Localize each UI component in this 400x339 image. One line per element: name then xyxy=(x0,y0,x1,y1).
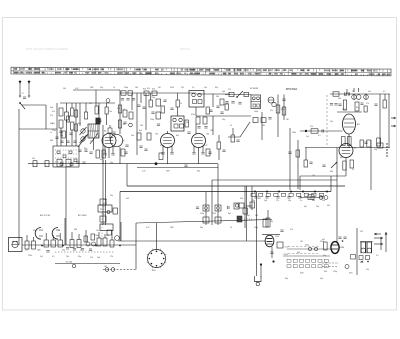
parts left of EZ80 xyxy=(324,242,328,250)
svg-text:120p: 120p xyxy=(200,213,204,215)
capacitor Cy1 xyxy=(78,150,81,152)
wire xyxy=(28,163,100,165)
capacitor Cz4 xyxy=(163,100,166,102)
svg-text:0,47: 0,47 xyxy=(142,171,146,173)
heater cap b xyxy=(360,103,363,105)
resistor R51 xyxy=(113,208,118,214)
svg-text:0,1: 0,1 xyxy=(52,256,55,258)
capacitor C27 xyxy=(322,165,325,167)
resistor R46 xyxy=(243,208,248,214)
resistor R43 xyxy=(203,217,209,223)
parts small xyxy=(239,203,244,208)
capacitor Cx4 xyxy=(309,162,312,164)
svg-text:3k3: 3k3 xyxy=(117,108,120,110)
svg-text:50µ: 50µ xyxy=(323,255,326,257)
node dot xyxy=(155,162,158,165)
wire xyxy=(244,186,246,228)
wire xyxy=(167,131,169,134)
strip stub 8 xyxy=(104,234,106,238)
wire xyxy=(196,93,230,95)
resistor R41 xyxy=(203,205,209,211)
resistor R6b xyxy=(102,150,105,158)
resistor R62b xyxy=(263,219,268,227)
capacitor C34 xyxy=(228,206,230,209)
wire xyxy=(19,128,57,130)
wire xyxy=(109,125,111,128)
wire xyxy=(135,268,137,270)
transformer T1 xyxy=(361,242,372,254)
svg-text:680: 680 xyxy=(330,171,333,173)
svg-text:47k: 47k xyxy=(290,229,293,231)
svg-text:15k: 15k xyxy=(109,111,112,113)
svg-text:39p: 39p xyxy=(374,149,377,151)
svg-text:10k: 10k xyxy=(366,269,369,271)
wire xyxy=(195,124,197,134)
wire xyxy=(66,120,68,146)
resistor Rz5 xyxy=(206,107,209,114)
wire xyxy=(102,125,104,164)
wire xyxy=(136,93,138,155)
capacitor Cz8 xyxy=(220,112,223,114)
capacitor Cx3 xyxy=(288,152,291,154)
wire xyxy=(271,247,273,258)
arrowhead xyxy=(385,232,388,235)
tube B3 EF89 xyxy=(161,134,175,148)
svg-text:39p: 39p xyxy=(288,200,291,202)
small box s xyxy=(107,230,111,235)
svg-text:0,1: 0,1 xyxy=(318,135,321,137)
svg-text:47k: 47k xyxy=(52,111,55,113)
lamp LA7 xyxy=(72,264,75,267)
capacitor C16 xyxy=(184,165,187,167)
box SK5 xyxy=(100,224,113,231)
wire xyxy=(379,94,381,148)
svg-text:220k: 220k xyxy=(292,132,296,134)
lamp LB2 xyxy=(324,196,328,200)
wire xyxy=(100,163,218,165)
mains plug U xyxy=(255,276,262,282)
svg-text:18k: 18k xyxy=(106,235,109,237)
capacitor C39 xyxy=(280,230,283,232)
wire xyxy=(106,114,108,125)
capacitor Cs2 xyxy=(73,249,76,251)
wire xyxy=(105,160,107,225)
resistor Rz1 xyxy=(149,100,152,107)
dark box xyxy=(237,216,242,222)
svg-text:8p2: 8p2 xyxy=(247,215,250,217)
arrow out2 xyxy=(374,243,383,245)
wire xyxy=(22,244,136,246)
antenna terminal A2 xyxy=(28,80,30,95)
svg-text:680: 680 xyxy=(312,200,315,202)
bus dots xyxy=(254,191,256,193)
capacitor C8a xyxy=(121,99,124,101)
resistor Rx3 xyxy=(296,150,300,157)
svg-text:S30: S30 xyxy=(360,262,363,264)
resistor Ry2 xyxy=(105,107,108,114)
tube B11 arc b xyxy=(52,228,58,240)
svg-text:0,47: 0,47 xyxy=(204,145,208,147)
svg-text:1k: 1k xyxy=(230,227,232,229)
resistor R47 xyxy=(250,202,255,208)
resistor Rs2 xyxy=(91,234,95,240)
capacitor Cz11 xyxy=(112,132,115,134)
resistor R25 xyxy=(261,118,266,123)
svg-text:5p6: 5p6 xyxy=(50,107,53,109)
diode B6a xyxy=(268,97,274,103)
svg-text:B12 UF89: B12 UF89 xyxy=(78,215,87,217)
capacitor Cz7 xyxy=(209,110,212,112)
wire xyxy=(150,93,152,100)
coil hatch xyxy=(88,124,89,138)
lamp LA6 xyxy=(345,265,349,269)
strip stub 2 xyxy=(52,235,54,240)
svg-text:220k: 220k xyxy=(170,87,174,89)
strip stub 6 xyxy=(85,230,87,242)
resistor Rb3 xyxy=(274,193,278,196)
svg-text:2n2: 2n2 xyxy=(368,91,371,93)
svg-text:5p6: 5p6 xyxy=(97,257,100,259)
trimmer C30 xyxy=(205,207,208,210)
resistor Rz8 xyxy=(74,110,77,117)
svg-text:5p6: 5p6 xyxy=(264,200,267,202)
resistor R34 xyxy=(343,161,346,170)
resistor R3 xyxy=(95,106,98,114)
resistor R2 xyxy=(71,122,74,130)
svg-text:10k: 10k xyxy=(66,256,69,258)
capacitor C11b xyxy=(204,127,207,129)
svg-text:220k: 220k xyxy=(320,241,324,243)
svg-text:100p: 100p xyxy=(95,235,99,237)
wire xyxy=(98,103,100,118)
tube B4 EF89 xyxy=(192,134,206,148)
wire xyxy=(65,167,67,245)
svg-text:50µ: 50µ xyxy=(110,195,113,197)
capacitor C5 xyxy=(66,141,69,143)
strip stub 5 xyxy=(78,234,80,240)
wire xyxy=(205,192,207,226)
capacitor Cz2 xyxy=(142,107,145,109)
svg-text:470k: 470k xyxy=(160,145,164,147)
wire xyxy=(225,94,251,96)
wire xyxy=(120,92,196,94)
IF can S17 xyxy=(171,116,184,131)
capacitor Cz6 xyxy=(187,132,190,134)
wire xyxy=(353,94,355,100)
svg-text:1n: 1n xyxy=(50,132,52,134)
wire xyxy=(277,95,279,138)
resistor Rx4 xyxy=(304,160,308,167)
resistor Rz7 xyxy=(62,131,65,138)
right edge arrow xyxy=(391,117,396,119)
DIN socket xyxy=(9,238,23,252)
resistor R63 xyxy=(351,255,356,260)
svg-text:1n: 1n xyxy=(352,169,354,171)
svg-text:100p: 100p xyxy=(254,227,258,229)
capacitor C32 xyxy=(196,207,199,209)
wire xyxy=(56,103,58,146)
svg-text:EZ80: EZ80 xyxy=(340,247,345,249)
right edge arrow2 xyxy=(391,125,396,127)
capacitor C13b xyxy=(170,153,173,155)
capacitor C23 xyxy=(348,92,350,95)
svg-text:B5X99A: B5X99A xyxy=(180,47,190,51)
svg-text:2n2: 2n2 xyxy=(306,136,309,138)
bus line y186 xyxy=(127,185,345,187)
capacitor C19 xyxy=(238,103,241,105)
terminal strip row2 xyxy=(287,265,291,268)
resistor R18 xyxy=(121,149,125,156)
wire xyxy=(232,128,234,135)
capacitor C12 xyxy=(139,146,142,148)
svg-text:27k: 27k xyxy=(276,200,279,202)
strip stub 3 xyxy=(59,233,61,240)
capacitor C22 xyxy=(345,92,347,95)
svg-text:5p6: 5p6 xyxy=(344,95,347,97)
wire xyxy=(262,234,280,236)
trimmer C37 xyxy=(86,242,90,246)
svg-text:18k: 18k xyxy=(338,98,341,100)
resistor R31 xyxy=(377,138,381,146)
svg-text:100p: 100p xyxy=(254,111,258,113)
trimmer C3 xyxy=(81,137,85,141)
capacitor C4 xyxy=(60,141,63,143)
resistor R38 xyxy=(45,161,49,167)
resistor R55 xyxy=(51,240,56,247)
capacitor C12b xyxy=(144,149,147,151)
resistor Rb8 xyxy=(312,193,316,196)
wire xyxy=(336,148,338,243)
coil S2 xyxy=(59,120,63,128)
svg-text:680: 680 xyxy=(50,140,53,142)
svg-text:2n2: 2n2 xyxy=(181,87,184,89)
coil S3 xyxy=(65,112,69,120)
svg-text:1k: 1k xyxy=(230,125,232,127)
band switch SK2 matrix xyxy=(53,146,79,167)
resistor Rb6 xyxy=(297,193,301,196)
wire xyxy=(228,122,250,137)
wire xyxy=(60,128,62,146)
trimmer arrow 1 xyxy=(78,134,88,147)
resistor R10 xyxy=(156,99,161,106)
svg-text:120p: 120p xyxy=(151,97,155,99)
resistor Rz4 xyxy=(185,120,188,127)
capacitor C8c xyxy=(132,99,135,101)
resistor R60 xyxy=(103,238,107,246)
capacitor C20 xyxy=(282,99,285,101)
resistor R8 xyxy=(123,110,127,117)
svg-text:680: 680 xyxy=(74,229,77,231)
svg-text:27k: 27k xyxy=(50,115,53,117)
wire xyxy=(287,248,332,250)
wire xyxy=(119,90,121,134)
svg-text:2M2: 2M2 xyxy=(37,250,41,252)
antenna terminal A1 xyxy=(19,80,21,95)
svg-text:82p: 82p xyxy=(78,256,81,258)
capacitor C18 xyxy=(231,102,234,104)
wire xyxy=(18,235,20,245)
capacitor Cs3 xyxy=(81,249,84,251)
svg-text:1n: 1n xyxy=(58,230,60,232)
wire xyxy=(289,128,291,190)
wire xyxy=(299,176,301,190)
capacitor C28 xyxy=(76,162,79,164)
capacitor Cx5 xyxy=(364,142,367,144)
resistor Rb5 xyxy=(289,193,293,196)
svg-text:4µ7: 4µ7 xyxy=(304,206,307,208)
wire xyxy=(135,223,137,268)
wire xyxy=(177,107,179,116)
volume pot arrow xyxy=(331,162,337,168)
svg-text:10k: 10k xyxy=(123,124,126,126)
node dot xyxy=(272,260,274,262)
arrow mark xyxy=(374,233,381,235)
svg-text:33p: 33p xyxy=(222,119,225,121)
wire xyxy=(177,93,179,100)
resistor R27 xyxy=(343,100,346,110)
wire xyxy=(218,149,220,160)
wire xyxy=(195,107,197,116)
capacitor C14c xyxy=(208,152,211,154)
svg-text:8p2: 8p2 xyxy=(139,130,142,132)
wire xyxy=(380,238,382,250)
wire xyxy=(337,111,362,113)
tube B1 ECH81 xyxy=(102,134,116,148)
svg-text:82p: 82p xyxy=(285,278,288,280)
capacitor C8d xyxy=(123,122,126,124)
resistor Rb9 xyxy=(319,193,323,196)
capacitor C8b xyxy=(126,99,129,101)
wire xyxy=(71,103,73,108)
resistor R53 xyxy=(32,241,36,249)
wire xyxy=(22,104,46,106)
wire xyxy=(330,176,332,192)
wire xyxy=(156,223,158,250)
resistor R61 xyxy=(110,240,114,247)
wire xyxy=(79,103,81,126)
svg-text:S29: S29 xyxy=(349,273,352,275)
wire xyxy=(66,103,68,112)
svg-text:220k: 220k xyxy=(342,109,346,111)
svg-text:0,1: 0,1 xyxy=(376,255,379,257)
wire xyxy=(212,94,214,107)
wire xyxy=(64,218,66,245)
resistor R42 xyxy=(215,205,221,211)
svg-text:470k: 470k xyxy=(191,114,195,116)
svg-text:M7X AM-FM SUPER SCHEMA: M7X AM-FM SUPER SCHEMA xyxy=(26,47,68,51)
wire xyxy=(75,103,77,146)
wire xyxy=(196,115,251,117)
diode B6b xyxy=(272,102,276,106)
resistor Ry1 xyxy=(84,112,87,119)
heater cap a xyxy=(338,104,341,106)
trimmer C38 xyxy=(92,242,96,246)
svg-text:B11 UCC85: B11 UCC85 xyxy=(40,215,50,217)
strip riser a xyxy=(26,235,28,241)
dashes xyxy=(244,218,252,220)
tube B8 EL84 xyxy=(343,114,356,134)
resistor R13 xyxy=(203,117,207,124)
resistor R22 xyxy=(276,105,280,113)
svg-text:S14: S14 xyxy=(152,89,155,91)
heater rail xyxy=(137,166,218,168)
lamp LA3 xyxy=(364,95,369,100)
capacitor C1 xyxy=(23,97,26,99)
svg-text:~ 250V: ~ 250V xyxy=(282,254,289,256)
svg-text:50µ: 50µ xyxy=(131,135,134,137)
resistor R33 xyxy=(311,129,318,133)
capacitor C7b xyxy=(111,154,114,156)
wire xyxy=(251,186,253,210)
resistor R14 xyxy=(137,133,141,140)
resistor Rs1 xyxy=(84,236,88,242)
capacitor C14b xyxy=(201,153,204,155)
wire xyxy=(106,103,108,107)
trimmer C33 xyxy=(235,204,238,207)
capacitor Cpsu xyxy=(270,252,273,254)
svg-text:470k: 470k xyxy=(305,245,309,247)
svg-text:8p2: 8p2 xyxy=(228,213,231,215)
capacitor C6 xyxy=(73,141,76,143)
resistor Rz6 xyxy=(225,104,228,110)
resistor R56 xyxy=(58,240,63,247)
svg-text:~ 6,3V: ~ 6,3V xyxy=(283,247,289,249)
svg-text:3k3: 3k3 xyxy=(324,271,327,273)
svg-text:120p: 120p xyxy=(103,199,107,201)
svg-text:0,47: 0,47 xyxy=(25,250,29,252)
svg-text:47k: 47k xyxy=(310,126,313,128)
wire xyxy=(370,140,372,190)
svg-text:5p6: 5p6 xyxy=(222,91,225,93)
wire xyxy=(384,94,386,100)
wire xyxy=(256,192,258,276)
wire xyxy=(388,94,390,148)
plug P1 xyxy=(103,269,136,271)
resistor R40 xyxy=(66,159,71,167)
wire xyxy=(330,93,390,95)
svg-text:33p: 33p xyxy=(200,227,203,229)
svg-text:4µ7: 4µ7 xyxy=(100,159,103,161)
svg-text:S28: S28 xyxy=(300,273,303,275)
capacitor C21 xyxy=(268,118,271,120)
svg-text:4µ7: 4µ7 xyxy=(122,140,125,142)
T1 bottom marks xyxy=(359,256,363,260)
capacitor C1b xyxy=(59,131,62,133)
resistor R49 xyxy=(100,199,106,205)
svg-text:470k: 470k xyxy=(212,213,216,215)
capacitor Cx1 xyxy=(222,150,225,152)
wire xyxy=(305,147,390,149)
resistor R19 xyxy=(220,99,224,105)
wire xyxy=(385,232,387,252)
svg-text:100p: 100p xyxy=(124,87,128,89)
capacitor Cy3 xyxy=(89,152,92,154)
wire xyxy=(118,240,265,242)
svg-text:2M2: 2M2 xyxy=(210,130,214,132)
coil S1 xyxy=(59,108,63,116)
svg-text:82p: 82p xyxy=(356,107,359,109)
svg-text:1k: 1k xyxy=(113,87,115,89)
svg-text:47k: 47k xyxy=(270,110,273,112)
svg-text:15k: 15k xyxy=(322,200,325,202)
resistor R39 xyxy=(57,159,62,167)
wire xyxy=(71,130,73,146)
resistor R52 xyxy=(25,241,29,249)
svg-text:47k: 47k xyxy=(90,257,93,259)
dot column xyxy=(386,143,387,144)
resistor Rb1 xyxy=(259,193,263,196)
svg-text:120p: 120p xyxy=(333,271,337,273)
